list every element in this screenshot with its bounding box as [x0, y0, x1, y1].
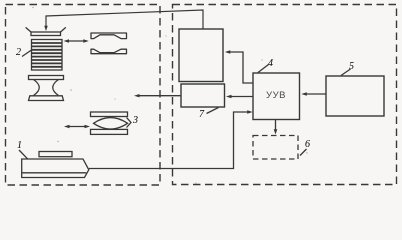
UUV block 4 — [253, 73, 300, 120]
tall block (deflection amplifier) — [179, 29, 223, 82]
label 5 — [349, 61, 354, 72]
wire: tall block top to deflector plate — [46, 10, 203, 29]
spool pedestal top flange — [29, 76, 64, 80]
label 1 leader — [19, 150, 28, 159]
spool pedestal base flange — [29, 96, 64, 101]
label 5 leader — [341, 69, 351, 76]
block 7 — [181, 84, 225, 107]
boat top plate — [39, 152, 72, 157]
lens 3 biconvex eye — [94, 118, 128, 130]
dashed box 6 — [253, 136, 298, 160]
label 7 — [199, 109, 204, 120]
lens 3 lower bar — [91, 129, 128, 134]
wire: UUV down to box 6 — [275, 120, 277, 131]
lens pair upper bar — [91, 33, 127, 39]
UUV text — [253, 90, 299, 101]
coil 2 (striped stack) — [32, 40, 63, 71]
lens pair lower bar — [91, 49, 127, 54]
label 2 — [16, 47, 21, 58]
double arrow lens 3 — [67, 126, 88, 128]
scan speckles — [32, 7, 307, 184]
target dish (specimen tray) — [31, 32, 61, 36]
label 7 leader — [207, 108, 219, 114]
label 3 — [133, 115, 138, 126]
wire: block 5 to UUV — [305, 93, 327, 95]
wire: UUV to block 7 — [229, 96, 253, 98]
double arrow coil-lens — [66, 40, 87, 42]
wire: UUV to tall block — [228, 52, 253, 83]
dashed enclosure left (vacuum chamber) — [6, 5, 161, 186]
label 6 — [305, 139, 310, 150]
long arrow from block 7 into chamber — [137, 95, 181, 97]
wire: boat to UUV input — [89, 112, 250, 169]
label 1 — [17, 140, 22, 151]
boat 1 (crucible) hull — [22, 159, 89, 178]
label 6 leader — [300, 149, 307, 156]
block 5 — [326, 76, 384, 116]
label 3 leader wedge — [127, 118, 132, 128]
spool pedestal waist — [34, 80, 40, 96]
label 4 — [268, 58, 273, 69]
label 2 leader — [22, 50, 32, 57]
dashed enclosure right (electronics unit) — [173, 5, 397, 185]
lens 3 upper bar — [91, 112, 128, 117]
label 4 leader — [258, 65, 269, 73]
